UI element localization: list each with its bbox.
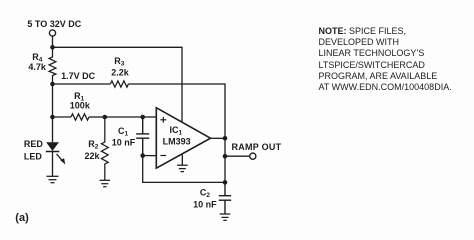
wire node B to R3: [53, 83, 111, 85]
wire node F to op-amp minus input: [143, 155, 157, 157]
LED D1 red: [46, 142, 59, 151]
resistor R1 100k horizontal: [71, 114, 89, 120]
svg-text:4.7k: 4.7k: [28, 62, 47, 72]
wire node D to node E: [105, 116, 143, 118]
svg-text:C2: C2: [200, 188, 211, 200]
svg-text:100k: 100k: [70, 101, 91, 111]
svg-text:2.2k: 2.2k: [111, 67, 130, 77]
LED arrow: [57, 154, 66, 165]
node D (R2 top): [103, 115, 108, 120]
wire op-amp output to node G: [211, 137, 226, 139]
op-amp ground pin: [181, 154, 183, 166]
figure label (a): [15, 212, 28, 224]
wire output column down: [224, 138, 226, 182]
op-amp minus symbol: [160, 155, 166, 157]
capacitor C2 10nF: [219, 182, 231, 214]
node H (ramp out tap): [223, 154, 228, 159]
ground below LED: [47, 176, 59, 182]
svg-text:R2: R2: [88, 139, 99, 151]
note text: [319, 26, 452, 94]
node A (supply junction): [50, 45, 55, 50]
op-amp U1 LM393 triangle: [156, 108, 210, 169]
svg-text:10 nF: 10 nF: [193, 199, 217, 209]
supply terminal: [49, 30, 55, 36]
wire node B down to node C: [52, 84, 54, 117]
resistor R4 4.7k vertical: [49, 47, 56, 84]
node B 1.7V DC: [50, 82, 55, 87]
wire feedback node F down and right to node I: [143, 156, 225, 183]
ramp out terminal: [250, 153, 256, 159]
wire node E to op-amp plus input: [143, 116, 157, 118]
node C (LED / R1 junction): [50, 115, 55, 120]
wire top rail to V+ drop: [53, 47, 183, 122]
wire R1 to node D: [89, 116, 105, 118]
node E (C1 top): [140, 115, 145, 120]
svg-text:RAMP OUT: RAMP OUT: [232, 142, 282, 152]
svg-text:LED: LED: [24, 151, 43, 161]
svg-text:10 nF: 10 nF: [112, 137, 136, 147]
svg-text:R3: R3: [114, 56, 125, 68]
wire to ramp out terminal: [225, 155, 250, 157]
ground below R2: [100, 180, 111, 186]
LED D1 wire from node C: [52, 117, 54, 142]
svg-text:C1: C1: [118, 126, 129, 138]
node I (C2 / feedback junction): [223, 180, 228, 185]
wire node C to R1: [53, 116, 72, 118]
wire LED to ground: [52, 151, 54, 176]
node F (C1 bottom / minus input): [140, 153, 145, 158]
resistor R3 2.2k horizontal: [110, 81, 128, 87]
ground below op-amp: [177, 165, 188, 171]
resistor R2 22k vertical: [101, 117, 108, 180]
svg-text:5 TO 32V DC: 5 TO 32V DC: [27, 19, 81, 29]
capacitor C1 10nF: [136, 117, 149, 156]
wire terminal to node A: [52, 36, 54, 47]
svg-text:LM393: LM393: [163, 136, 191, 146]
node G (output junction): [223, 136, 228, 141]
svg-text:22k: 22k: [85, 151, 101, 161]
svg-text:RED: RED: [24, 139, 44, 149]
wire R3 to output column: [128, 84, 225, 138]
op-amp plus symbol: [160, 117, 166, 123]
svg-text:1.7V DC: 1.7V DC: [61, 71, 96, 81]
ground below C2: [220, 214, 231, 220]
